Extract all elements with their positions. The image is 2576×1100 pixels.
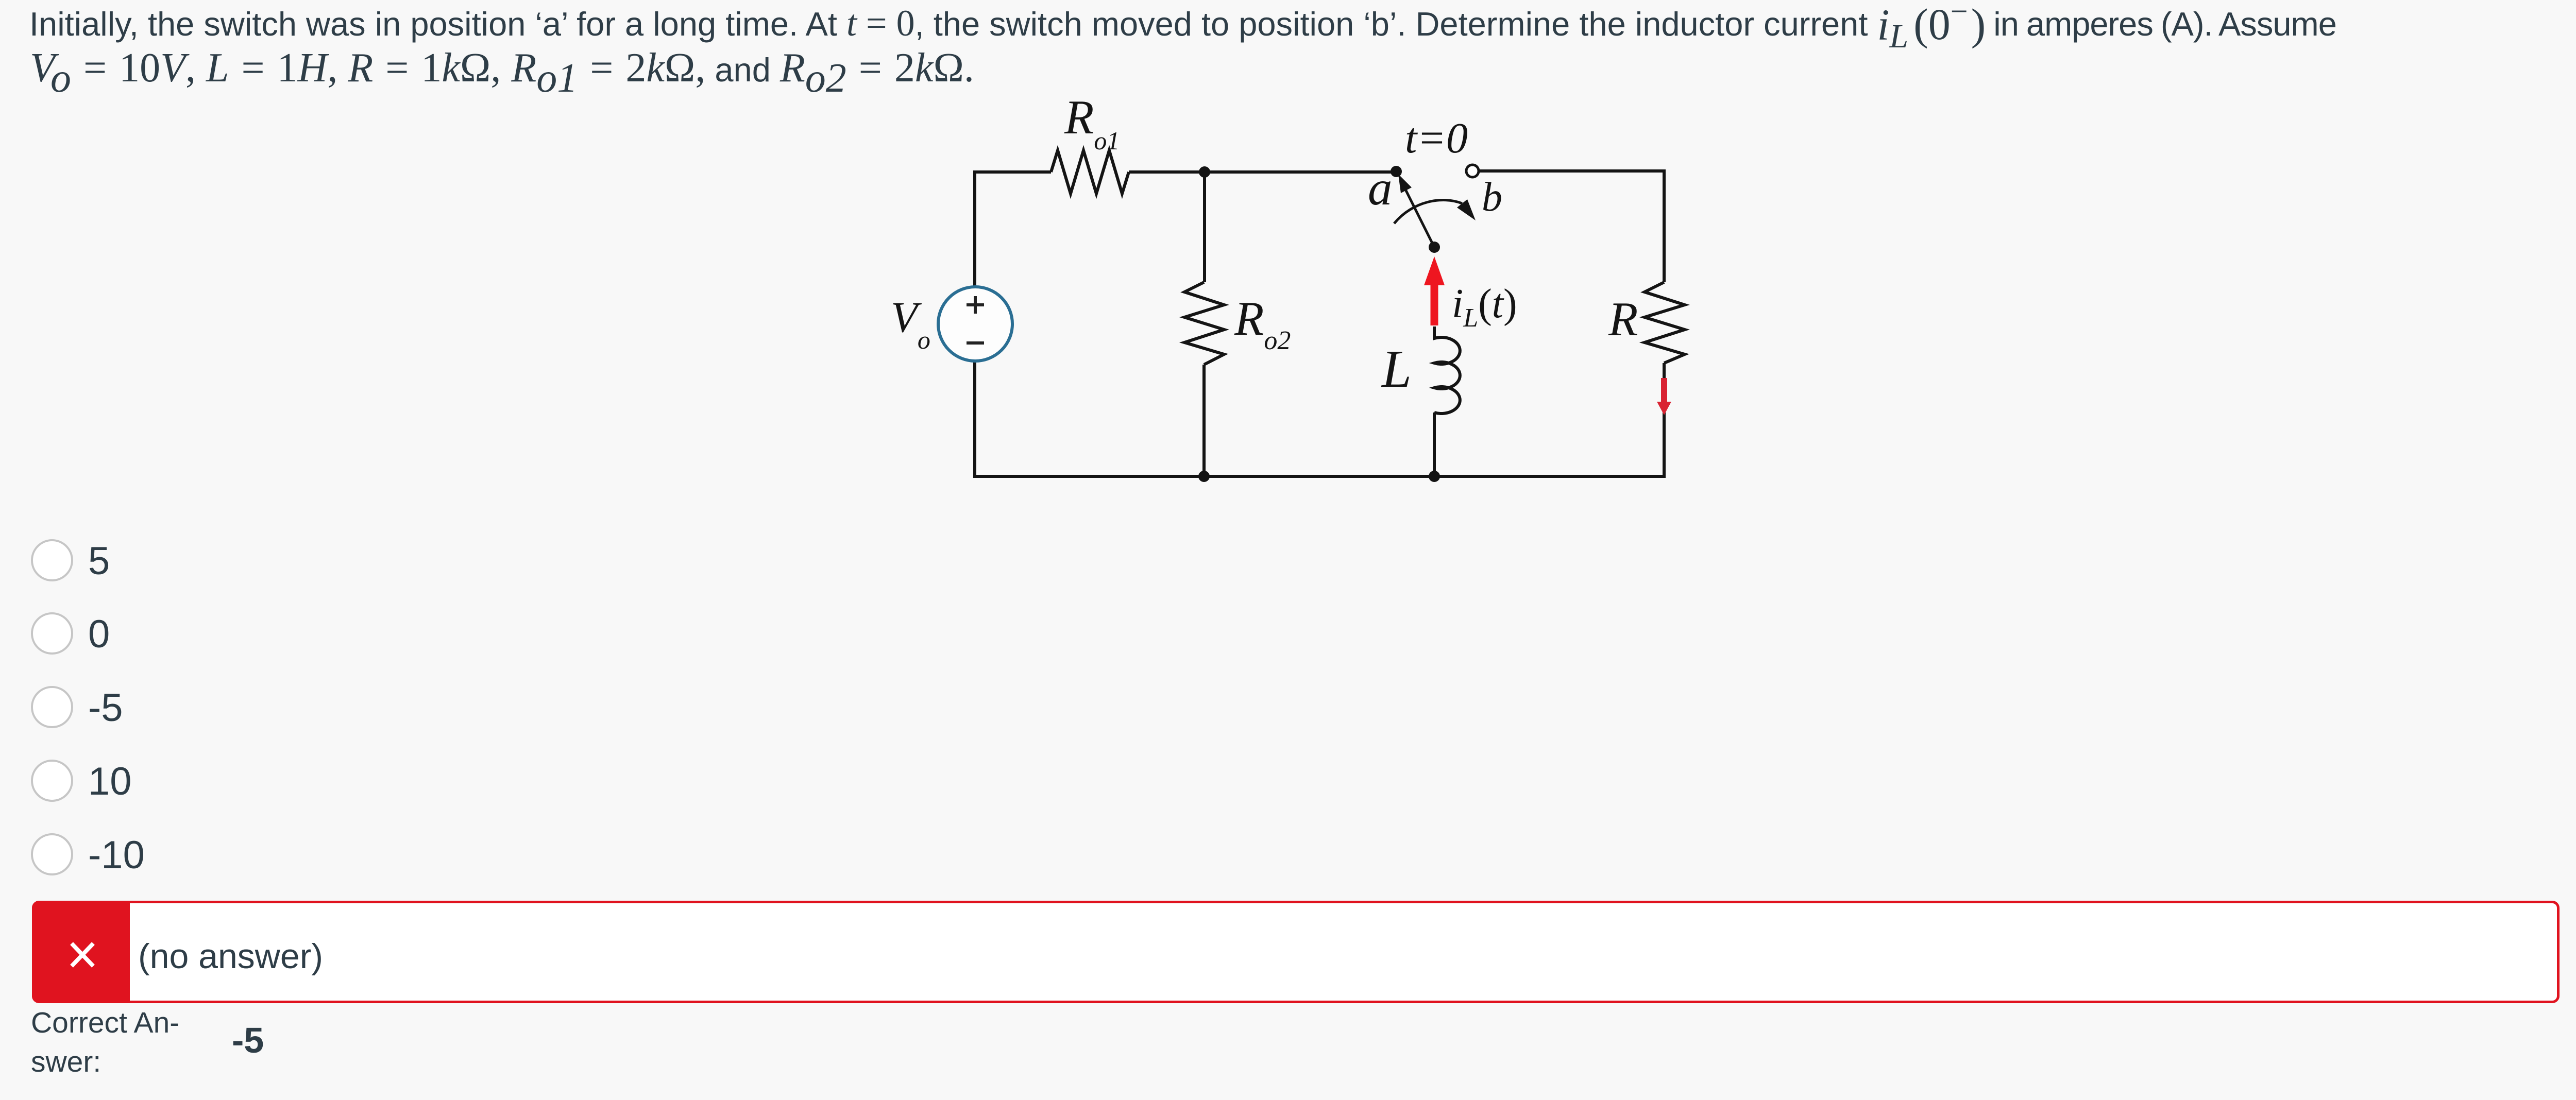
inductor L — [1434, 326, 1460, 414]
wire Ro2 to bottom — [1202, 365, 1206, 476]
node dot bottom Ro2 — [1198, 471, 1210, 482]
svg-text:L: L — [1381, 339, 1412, 399]
minus sign — [967, 341, 984, 345]
correct answer label — [31, 1003, 179, 1081]
svg-text:Vo: Vo — [891, 293, 930, 354]
question text line 2 — [30, 45, 974, 92]
switch arm arrowhead — [1398, 174, 1412, 193]
correct answer value — [232, 1020, 264, 1061]
svg-text:a: a — [1368, 161, 1393, 215]
plus sign — [967, 296, 984, 314]
svg-text:Ro1: Ro1 — [1064, 91, 1120, 155]
switch arm — [1404, 186, 1434, 247]
wire top middle — [1129, 170, 1396, 174]
switch arc — [1394, 200, 1462, 224]
radio option 0 — [31, 612, 73, 655]
node dot bottom L — [1429, 471, 1440, 482]
node dot a — [1391, 166, 1402, 177]
switch arc arrowhead — [1457, 199, 1476, 220]
svg-text:iL(t): iL(t) — [1452, 281, 1517, 333]
radio option -10 — [31, 833, 73, 875]
radio option -5 — [31, 686, 73, 728]
wire top right — [1479, 171, 1664, 282]
wire left rail top — [975, 172, 1051, 286]
question text line 1 — [29, 0, 2336, 46]
wire left rail bottom — [975, 361, 1664, 476]
current arrow R red — [1661, 378, 1667, 403]
resistor R — [1645, 282, 1685, 363]
node dot top — [1199, 166, 1210, 178]
node dot switch bottom — [1429, 242, 1440, 253]
wire L to bottom — [1433, 413, 1436, 476]
answer box — [32, 901, 2560, 1003]
answer box red cell — [32, 901, 130, 1003]
wire Ro2 drop — [1203, 172, 1206, 282]
svg-text:Ro2: Ro2 — [1234, 292, 1291, 355]
resistor Ro2 — [1184, 282, 1224, 365]
terminal b circle — [1466, 165, 1479, 177]
no answer text — [138, 936, 323, 976]
svg-text:R: R — [1608, 293, 1638, 346]
current arrow iL red — [1431, 283, 1438, 325]
svg-text:t=0: t=0 — [1405, 114, 1468, 162]
radio option 10 — [31, 760, 73, 802]
voltage source Vo circle — [938, 287, 1012, 361]
svg-text:b: b — [1482, 175, 1502, 220]
radio option 5 — [31, 539, 73, 581]
X icon — [70, 941, 95, 969]
resistor Ro1 — [1051, 150, 1129, 194]
